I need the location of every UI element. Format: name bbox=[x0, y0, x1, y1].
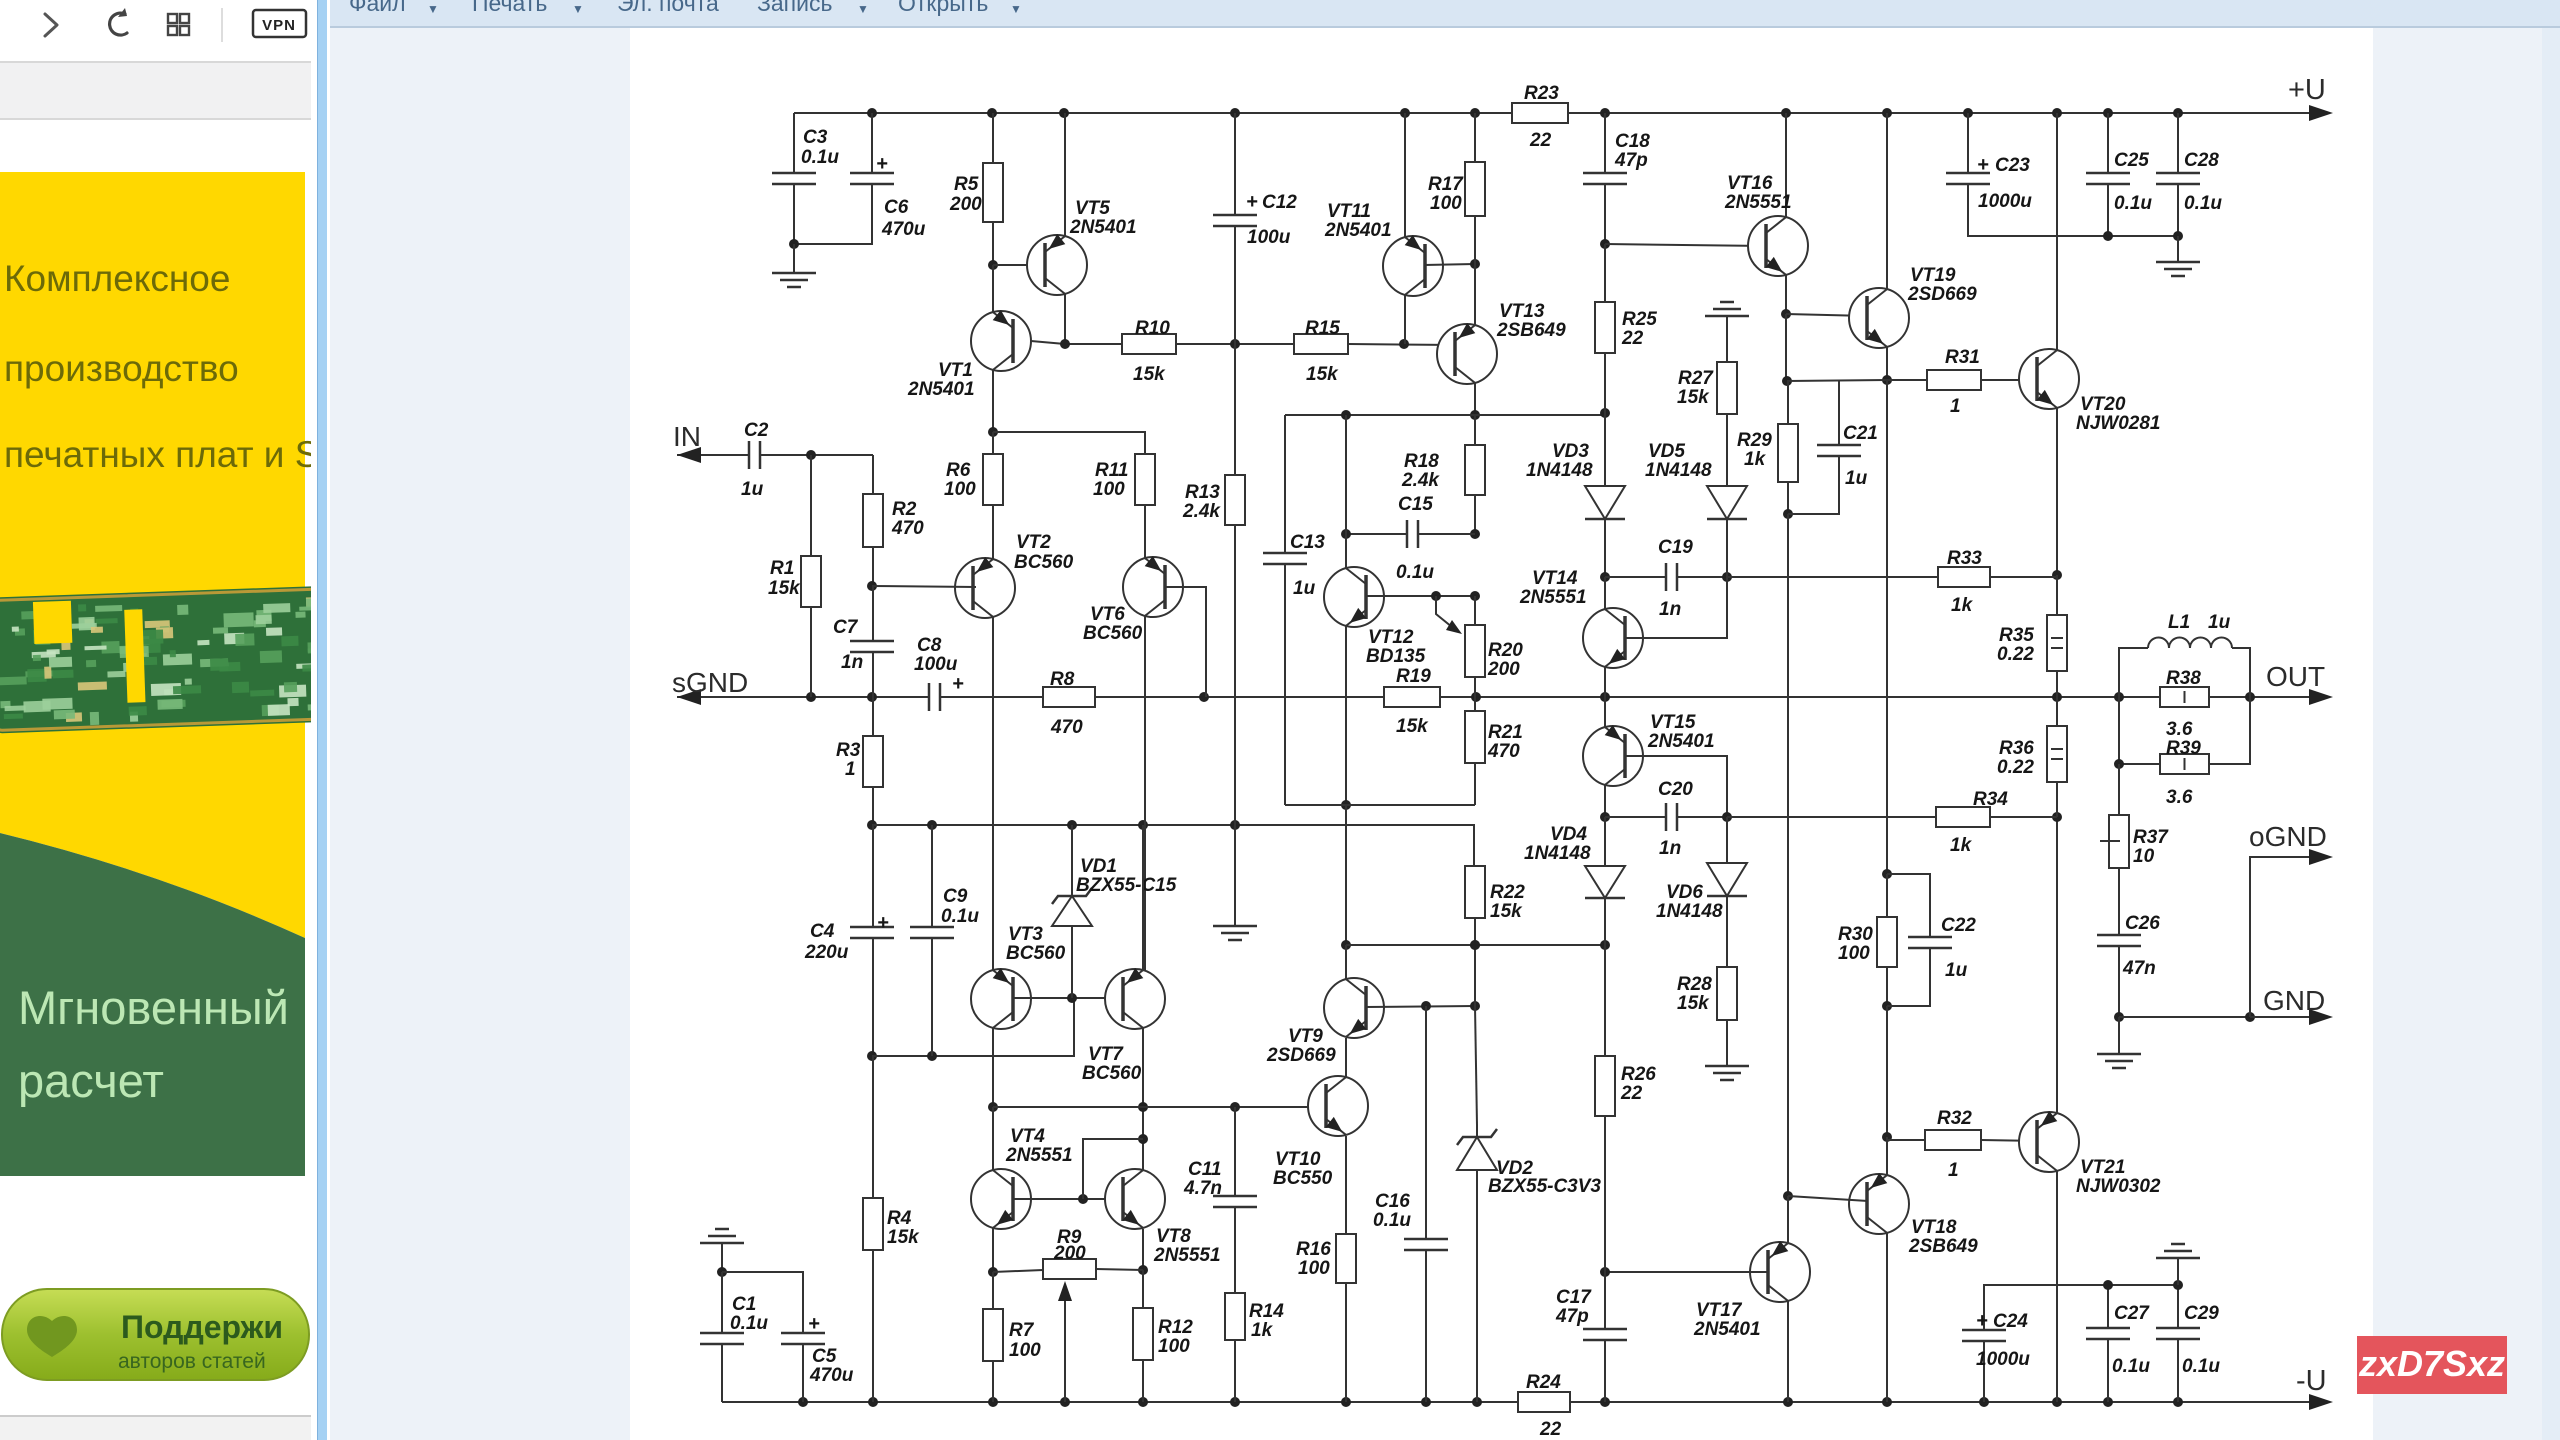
svg-text:oGND: oGND bbox=[2249, 821, 2327, 852]
svg-text:C9: C9 bbox=[943, 886, 968, 907]
svg-text:+: + bbox=[876, 153, 888, 175]
svg-text:100u: 100u bbox=[1247, 227, 1291, 248]
svg-text:1: 1 bbox=[845, 759, 856, 780]
svg-text:R15: R15 bbox=[1305, 318, 1340, 339]
svg-text:C22: C22 bbox=[1941, 915, 1976, 936]
svg-text:NJW0302: NJW0302 bbox=[2076, 1176, 2161, 1197]
svg-text:R17: R17 bbox=[1428, 174, 1464, 195]
svg-text:100: 100 bbox=[1009, 1340, 1041, 1361]
svg-text:C29: C29 bbox=[2184, 1303, 2219, 1324]
svg-text:R36: R36 bbox=[1999, 738, 2034, 759]
svg-text:печатных плат и SM: печатных плат и SM bbox=[4, 434, 311, 475]
svg-text:BC560: BC560 bbox=[1014, 552, 1074, 573]
svg-text:VT17: VT17 bbox=[1696, 1300, 1743, 1321]
svg-text:15k: 15k bbox=[1133, 364, 1166, 385]
svg-text:200: 200 bbox=[1053, 1243, 1086, 1264]
svg-text:C16: C16 bbox=[1375, 1191, 1410, 1212]
svg-text:C23: C23 bbox=[1995, 155, 2030, 176]
svg-text:1k: 1k bbox=[1950, 835, 1973, 856]
svg-text:2.4k: 2.4k bbox=[1401, 470, 1440, 491]
svg-text:C12: C12 bbox=[1262, 192, 1297, 213]
svg-text:VT15: VT15 bbox=[1650, 712, 1696, 733]
svg-text:VT21: VT21 bbox=[2080, 1157, 2125, 1178]
svg-text:22: 22 bbox=[1621, 328, 1644, 349]
svg-text:VT3: VT3 bbox=[1008, 924, 1043, 945]
svg-text:VD5: VD5 bbox=[1648, 441, 1685, 462]
svg-text:470: 470 bbox=[891, 518, 924, 539]
svg-text:1N4148: 1N4148 bbox=[1656, 901, 1723, 922]
svg-text:R2: R2 bbox=[892, 499, 917, 520]
svg-text:1N4148: 1N4148 bbox=[1645, 460, 1712, 481]
svg-text:BC550: BC550 bbox=[1273, 1168, 1333, 1189]
svg-text:+: + bbox=[952, 673, 964, 695]
svg-text:VT18: VT18 bbox=[1911, 1217, 1957, 1238]
svg-text:C19: C19 bbox=[1658, 537, 1693, 558]
svg-text:C17: C17 bbox=[1556, 1287, 1592, 1308]
svg-text:R18: R18 bbox=[1404, 451, 1439, 472]
svg-text:VT2: VT2 bbox=[1016, 532, 1051, 553]
svg-text:1000u: 1000u bbox=[1976, 1349, 2030, 1370]
svg-text:C1: C1 bbox=[732, 1294, 756, 1315]
svg-text:R1: R1 bbox=[770, 558, 794, 579]
svg-text:15k: 15k bbox=[1490, 901, 1523, 922]
svg-text:100: 100 bbox=[1158, 1336, 1190, 1357]
svg-text:15k: 15k bbox=[1396, 716, 1429, 737]
svg-text:1: 1 bbox=[1948, 1160, 1959, 1181]
svg-text:470u: 470u bbox=[881, 219, 926, 240]
svg-text:BC560: BC560 bbox=[1082, 1063, 1142, 1084]
svg-text:1u: 1u bbox=[1293, 578, 1316, 599]
svg-text:2SB649: 2SB649 bbox=[1908, 1236, 1978, 1257]
svg-text:2N5401: 2N5401 bbox=[1647, 731, 1715, 752]
svg-text:VT5: VT5 bbox=[1075, 198, 1110, 219]
svg-text:1u: 1u bbox=[2208, 612, 2231, 633]
svg-text:0.22: 0.22 bbox=[1997, 644, 2034, 665]
svg-text:-U: -U bbox=[2296, 1365, 2327, 1397]
svg-text:R34: R34 bbox=[1973, 789, 2008, 810]
svg-text:200: 200 bbox=[1487, 659, 1520, 680]
svg-text:2N5551: 2N5551 bbox=[1005, 1145, 1073, 1166]
svg-text:расчет: расчет bbox=[18, 1054, 164, 1107]
svg-text:R22: R22 bbox=[1490, 882, 1525, 903]
svg-text:+U: +U bbox=[2288, 74, 2326, 106]
svg-text:3.6: 3.6 bbox=[2166, 787, 2193, 808]
svg-text:100: 100 bbox=[1430, 193, 1462, 214]
svg-text:R14: R14 bbox=[1249, 1301, 1284, 1322]
svg-text:R29: R29 bbox=[1737, 430, 1772, 451]
svg-text:C8: C8 bbox=[917, 635, 942, 656]
svg-text:VT1: VT1 bbox=[938, 360, 973, 381]
svg-text:100: 100 bbox=[944, 479, 976, 500]
svg-text:BC560: BC560 bbox=[1083, 623, 1143, 644]
svg-text:0.1u: 0.1u bbox=[730, 1313, 768, 1334]
svg-text:VT11: VT11 bbox=[1327, 201, 1371, 222]
svg-text:0.1u: 0.1u bbox=[1396, 562, 1434, 583]
svg-text:+: + bbox=[1246, 191, 1258, 213]
svg-text:R20: R20 bbox=[1488, 640, 1523, 661]
svg-text:R11: R11 bbox=[1095, 460, 1128, 481]
svg-text:C5: C5 bbox=[812, 1346, 837, 1367]
svg-text:C7: C7 bbox=[833, 617, 859, 638]
svg-text:4.7n: 4.7n bbox=[1183, 1178, 1222, 1199]
svg-text:VD3: VD3 bbox=[1552, 441, 1589, 462]
svg-text:220u: 220u bbox=[804, 942, 849, 963]
svg-text:L1: L1 bbox=[2168, 612, 2190, 633]
svg-text:R10: R10 bbox=[1135, 318, 1170, 339]
svg-text:VT9: VT9 bbox=[1288, 1026, 1323, 1047]
svg-text:BZX55-C15: BZX55-C15 bbox=[1076, 875, 1177, 896]
svg-text:1N4148: 1N4148 bbox=[1526, 460, 1593, 481]
svg-text:R4: R4 bbox=[887, 1208, 912, 1229]
svg-text:R33: R33 bbox=[1947, 548, 1982, 569]
svg-text:VT13: VT13 bbox=[1499, 301, 1545, 322]
svg-text:2SD669: 2SD669 bbox=[1907, 284, 1977, 305]
svg-text:R25: R25 bbox=[1622, 309, 1657, 330]
svg-text:0.1u: 0.1u bbox=[2114, 193, 2152, 214]
svg-text:1u: 1u bbox=[1945, 960, 1968, 981]
svg-text:VT20: VT20 bbox=[2080, 394, 2126, 415]
svg-text:0.1u: 0.1u bbox=[1373, 1210, 1411, 1231]
svg-text:R28: R28 bbox=[1677, 974, 1712, 995]
svg-text:R12: R12 bbox=[1158, 1317, 1193, 1338]
svg-text:R32: R32 bbox=[1937, 1108, 1972, 1129]
svg-text:C20: C20 bbox=[1658, 779, 1693, 800]
svg-text:R26: R26 bbox=[1621, 1064, 1656, 1085]
svg-text:IN: IN bbox=[673, 421, 701, 452]
svg-text:C3: C3 bbox=[803, 127, 828, 148]
svg-text:C27: C27 bbox=[2114, 1303, 2150, 1324]
svg-text:2SD669: 2SD669 bbox=[1266, 1045, 1336, 1066]
svg-text:BC560: BC560 bbox=[1006, 943, 1066, 964]
svg-text:0.1u: 0.1u bbox=[2182, 1356, 2220, 1377]
svg-text:VD1: VD1 bbox=[1080, 856, 1117, 877]
svg-text:0.22: 0.22 bbox=[1997, 757, 2034, 778]
svg-text:0.1u: 0.1u bbox=[2184, 193, 2222, 214]
svg-text:C13: C13 bbox=[1290, 532, 1325, 553]
svg-text:VT7: VT7 bbox=[1088, 1044, 1124, 1065]
svg-text:2SB649: 2SB649 bbox=[1496, 320, 1566, 341]
svg-text:C6: C6 bbox=[884, 197, 909, 218]
svg-text:OUT: OUT bbox=[2266, 661, 2325, 692]
svg-text:BZX55-C3V3: BZX55-C3V3 bbox=[1488, 1176, 1601, 1197]
svg-text:C26: C26 bbox=[2125, 913, 2160, 934]
svg-text:Мгновенный: Мгновенный bbox=[18, 981, 289, 1034]
svg-text:C15: C15 bbox=[1398, 494, 1433, 515]
svg-text:100u: 100u bbox=[914, 654, 958, 675]
svg-text:200: 200 bbox=[949, 194, 982, 215]
svg-text:VD6: VD6 bbox=[1666, 882, 1703, 903]
svg-text:R35: R35 bbox=[1999, 625, 2034, 646]
svg-text:VD4: VD4 bbox=[1550, 824, 1587, 845]
svg-text:C2: C2 bbox=[744, 420, 769, 441]
svg-text:1000u: 1000u bbox=[1978, 191, 2032, 212]
svg-text:VT4: VT4 bbox=[1010, 1126, 1045, 1147]
svg-text:470u: 470u bbox=[809, 1365, 854, 1386]
svg-text:2N5401: 2N5401 bbox=[1069, 217, 1137, 238]
svg-text:R13: R13 bbox=[1185, 482, 1220, 503]
svg-text:R5: R5 bbox=[954, 174, 979, 195]
svg-text:VT12: VT12 bbox=[1368, 627, 1414, 648]
svg-text:1u: 1u bbox=[1845, 468, 1868, 489]
svg-text:10: 10 bbox=[2133, 846, 2155, 867]
svg-text:22: 22 bbox=[1539, 1419, 1562, 1440]
svg-text:C18: C18 bbox=[1615, 131, 1650, 152]
svg-text:0.1u: 0.1u bbox=[2112, 1356, 2150, 1377]
svg-text:BD135: BD135 bbox=[1366, 646, 1426, 667]
svg-text:C24: C24 bbox=[1993, 1311, 2028, 1332]
svg-text:C4: C4 bbox=[810, 921, 835, 942]
svg-text:VT8: VT8 bbox=[1156, 1226, 1191, 1247]
svg-text:2N5401: 2N5401 bbox=[1693, 1319, 1761, 1340]
svg-text:0.1u: 0.1u bbox=[801, 147, 839, 168]
svg-text:GND: GND bbox=[2263, 985, 2325, 1016]
svg-text:1n: 1n bbox=[841, 652, 863, 673]
svg-text:C11: C11 bbox=[1188, 1159, 1221, 1180]
svg-text:2N5401: 2N5401 bbox=[1324, 220, 1392, 241]
svg-text:авторов статей: авторов статей bbox=[118, 1350, 266, 1373]
svg-text:47n: 47n bbox=[2122, 958, 2156, 979]
svg-text:1: 1 bbox=[1950, 396, 1961, 417]
svg-text:2N5551: 2N5551 bbox=[1153, 1245, 1221, 1266]
svg-text:100: 100 bbox=[1093, 479, 1125, 500]
svg-text:R16: R16 bbox=[1296, 1239, 1331, 1260]
svg-text:47p: 47p bbox=[1555, 1306, 1589, 1327]
svg-text:VT16: VT16 bbox=[1727, 173, 1773, 194]
svg-text:15k: 15k bbox=[887, 1227, 920, 1248]
svg-text:22: 22 bbox=[1620, 1083, 1643, 1104]
svg-text:470: 470 bbox=[1050, 717, 1083, 738]
svg-text:R30: R30 bbox=[1838, 924, 1873, 945]
svg-text:R7: R7 bbox=[1009, 1320, 1035, 1341]
svg-text:1n: 1n bbox=[1659, 838, 1681, 859]
svg-text:R38: R38 bbox=[2166, 668, 2201, 689]
svg-text:15k: 15k bbox=[1306, 364, 1339, 385]
svg-text:100: 100 bbox=[1298, 1258, 1330, 1279]
svg-text:VT6: VT6 bbox=[1090, 604, 1125, 625]
svg-text:100: 100 bbox=[1838, 943, 1870, 964]
svg-text:470: 470 bbox=[1487, 741, 1520, 762]
svg-text:+: + bbox=[1977, 154, 1989, 176]
svg-text:R21: R21 bbox=[1488, 722, 1523, 743]
svg-text:R39: R39 bbox=[2166, 738, 2201, 759]
svg-text:R8: R8 bbox=[1050, 669, 1075, 690]
svg-text:1k: 1k bbox=[1744, 449, 1767, 470]
svg-text:+: + bbox=[1976, 1310, 1988, 1332]
svg-text:15k: 15k bbox=[1677, 993, 1710, 1014]
svg-text:1k: 1k bbox=[1951, 595, 1974, 616]
svg-text:C25: C25 bbox=[2114, 150, 2149, 171]
svg-text:47p: 47p bbox=[1614, 150, 1648, 171]
svg-text:1N4148: 1N4148 bbox=[1524, 843, 1591, 864]
svg-text:VT10: VT10 bbox=[1275, 1149, 1321, 1170]
svg-text:2N5551: 2N5551 bbox=[1519, 587, 1587, 608]
svg-text:2.4k: 2.4k bbox=[1182, 501, 1221, 522]
svg-text:R6: R6 bbox=[946, 460, 971, 481]
svg-text:+: + bbox=[877, 912, 889, 934]
svg-text:1n: 1n bbox=[1659, 599, 1681, 620]
svg-text:15k: 15k bbox=[768, 578, 801, 599]
svg-text:NJW0281: NJW0281 bbox=[2076, 413, 2161, 434]
svg-text:15k: 15k bbox=[1677, 387, 1710, 408]
svg-text:2N5551: 2N5551 bbox=[1724, 192, 1792, 213]
svg-text:VPN: VPN bbox=[262, 17, 296, 34]
svg-text:R24: R24 bbox=[1526, 1372, 1561, 1393]
svg-text:Комплексное: Комплексное bbox=[4, 258, 230, 299]
svg-text:VT19: VT19 bbox=[1910, 265, 1956, 286]
svg-text:+: + bbox=[808, 1313, 820, 1335]
svg-text:1u: 1u bbox=[741, 479, 764, 500]
svg-text:Поддержи: Поддержи bbox=[121, 1309, 283, 1345]
svg-text:R23: R23 bbox=[1524, 83, 1559, 104]
svg-text:C28: C28 bbox=[2184, 150, 2219, 171]
svg-text:2N5401: 2N5401 bbox=[907, 379, 975, 400]
svg-text:22: 22 bbox=[1529, 130, 1552, 151]
svg-text:3.6: 3.6 bbox=[2166, 719, 2193, 740]
svg-text:R37: R37 bbox=[2133, 827, 2169, 848]
svg-text:производство: производство bbox=[4, 348, 239, 389]
svg-text:R31: R31 bbox=[1945, 347, 1980, 368]
svg-text:0.1u: 0.1u bbox=[941, 906, 979, 927]
svg-text:R3: R3 bbox=[836, 740, 861, 761]
svg-text:C21: C21 bbox=[1843, 423, 1878, 444]
svg-text:VT14: VT14 bbox=[1532, 568, 1578, 589]
svg-text:R27: R27 bbox=[1678, 368, 1714, 389]
svg-text:R19: R19 bbox=[1396, 666, 1431, 687]
svg-text:1k: 1k bbox=[1251, 1320, 1274, 1341]
svg-text:sGND: sGND bbox=[672, 667, 748, 698]
